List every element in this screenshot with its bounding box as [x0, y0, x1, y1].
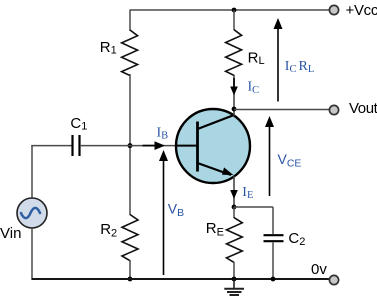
wire RL top — [233, 10, 235, 30]
terminal Vout — [329, 105, 338, 114]
arrow VCE voltage — [269, 119, 271, 196]
wire base node to transistor base — [130, 145, 177, 147]
ground — [233, 279, 235, 289]
wire R2 bottom to ground rail — [129, 260, 131, 279]
resistor RL — [226, 30, 242, 76]
terminal +Vcc — [329, 5, 338, 14]
node junction R1-R2-base — [128, 143, 133, 148]
arrow IC collector current — [233, 78, 235, 88]
wire C2 bottom to ground rail — [272, 243, 274, 280]
resistor R2 — [122, 215, 138, 261]
wire ground rail — [32, 278, 331, 280]
resistor RE — [227, 218, 243, 263]
wire emitter to emitter node — [233, 176, 235, 208]
transistor Q1 — [176, 109, 250, 183]
node junction R2-ground rail — [128, 277, 133, 282]
wire input left from Vin top — [31, 145, 33, 198]
source Vin — [17, 198, 47, 228]
wire R1 bottom to base node — [129, 74, 131, 147]
arrow IE emitter current — [230, 190, 238, 199]
svg-text:Vin: Vin — [0, 225, 21, 242]
node junction Vcc-RL — [232, 8, 237, 13]
svg-text:+Vcc: +Vcc — [346, 2, 377, 19]
terminal 0v — [329, 275, 338, 284]
node junction RE-ground rail — [232, 277, 237, 282]
arrow IB base current — [143, 145, 156, 147]
wire collector node to Vout terminal — [234, 109, 330, 111]
wire RL bottom to collector node — [233, 75, 235, 116]
node junction collector-Vout — [232, 107, 237, 112]
capacitor C1 — [71, 135, 73, 156]
wire emitter node to C2 branch — [234, 206, 273, 208]
capacitor C2 — [264, 234, 284, 236]
wire C1 to base node — [80, 145, 130, 147]
arrow VB voltage — [163, 153, 165, 275]
wire top rail Vcc — [130, 9, 331, 11]
wire RE top — [233, 207, 235, 218]
svg-text:0v: 0v — [311, 261, 327, 278]
arrow ICRL voltage across RL — [277, 21, 279, 102]
wire C2 top — [272, 207, 274, 234]
wire R1 top vertical — [129, 10, 131, 31]
resistor R1 — [122, 30, 138, 76]
node junction emitter-RE-C2 — [232, 205, 237, 210]
wire R2 top from base node — [129, 146, 131, 215]
wire RE bottom to ground rail — [233, 262, 235, 279]
wire Vin bottom to ground rail — [31, 228, 33, 280]
svg-text:Vout: Vout — [349, 100, 377, 117]
node junction C2-ground rail — [271, 277, 276, 282]
